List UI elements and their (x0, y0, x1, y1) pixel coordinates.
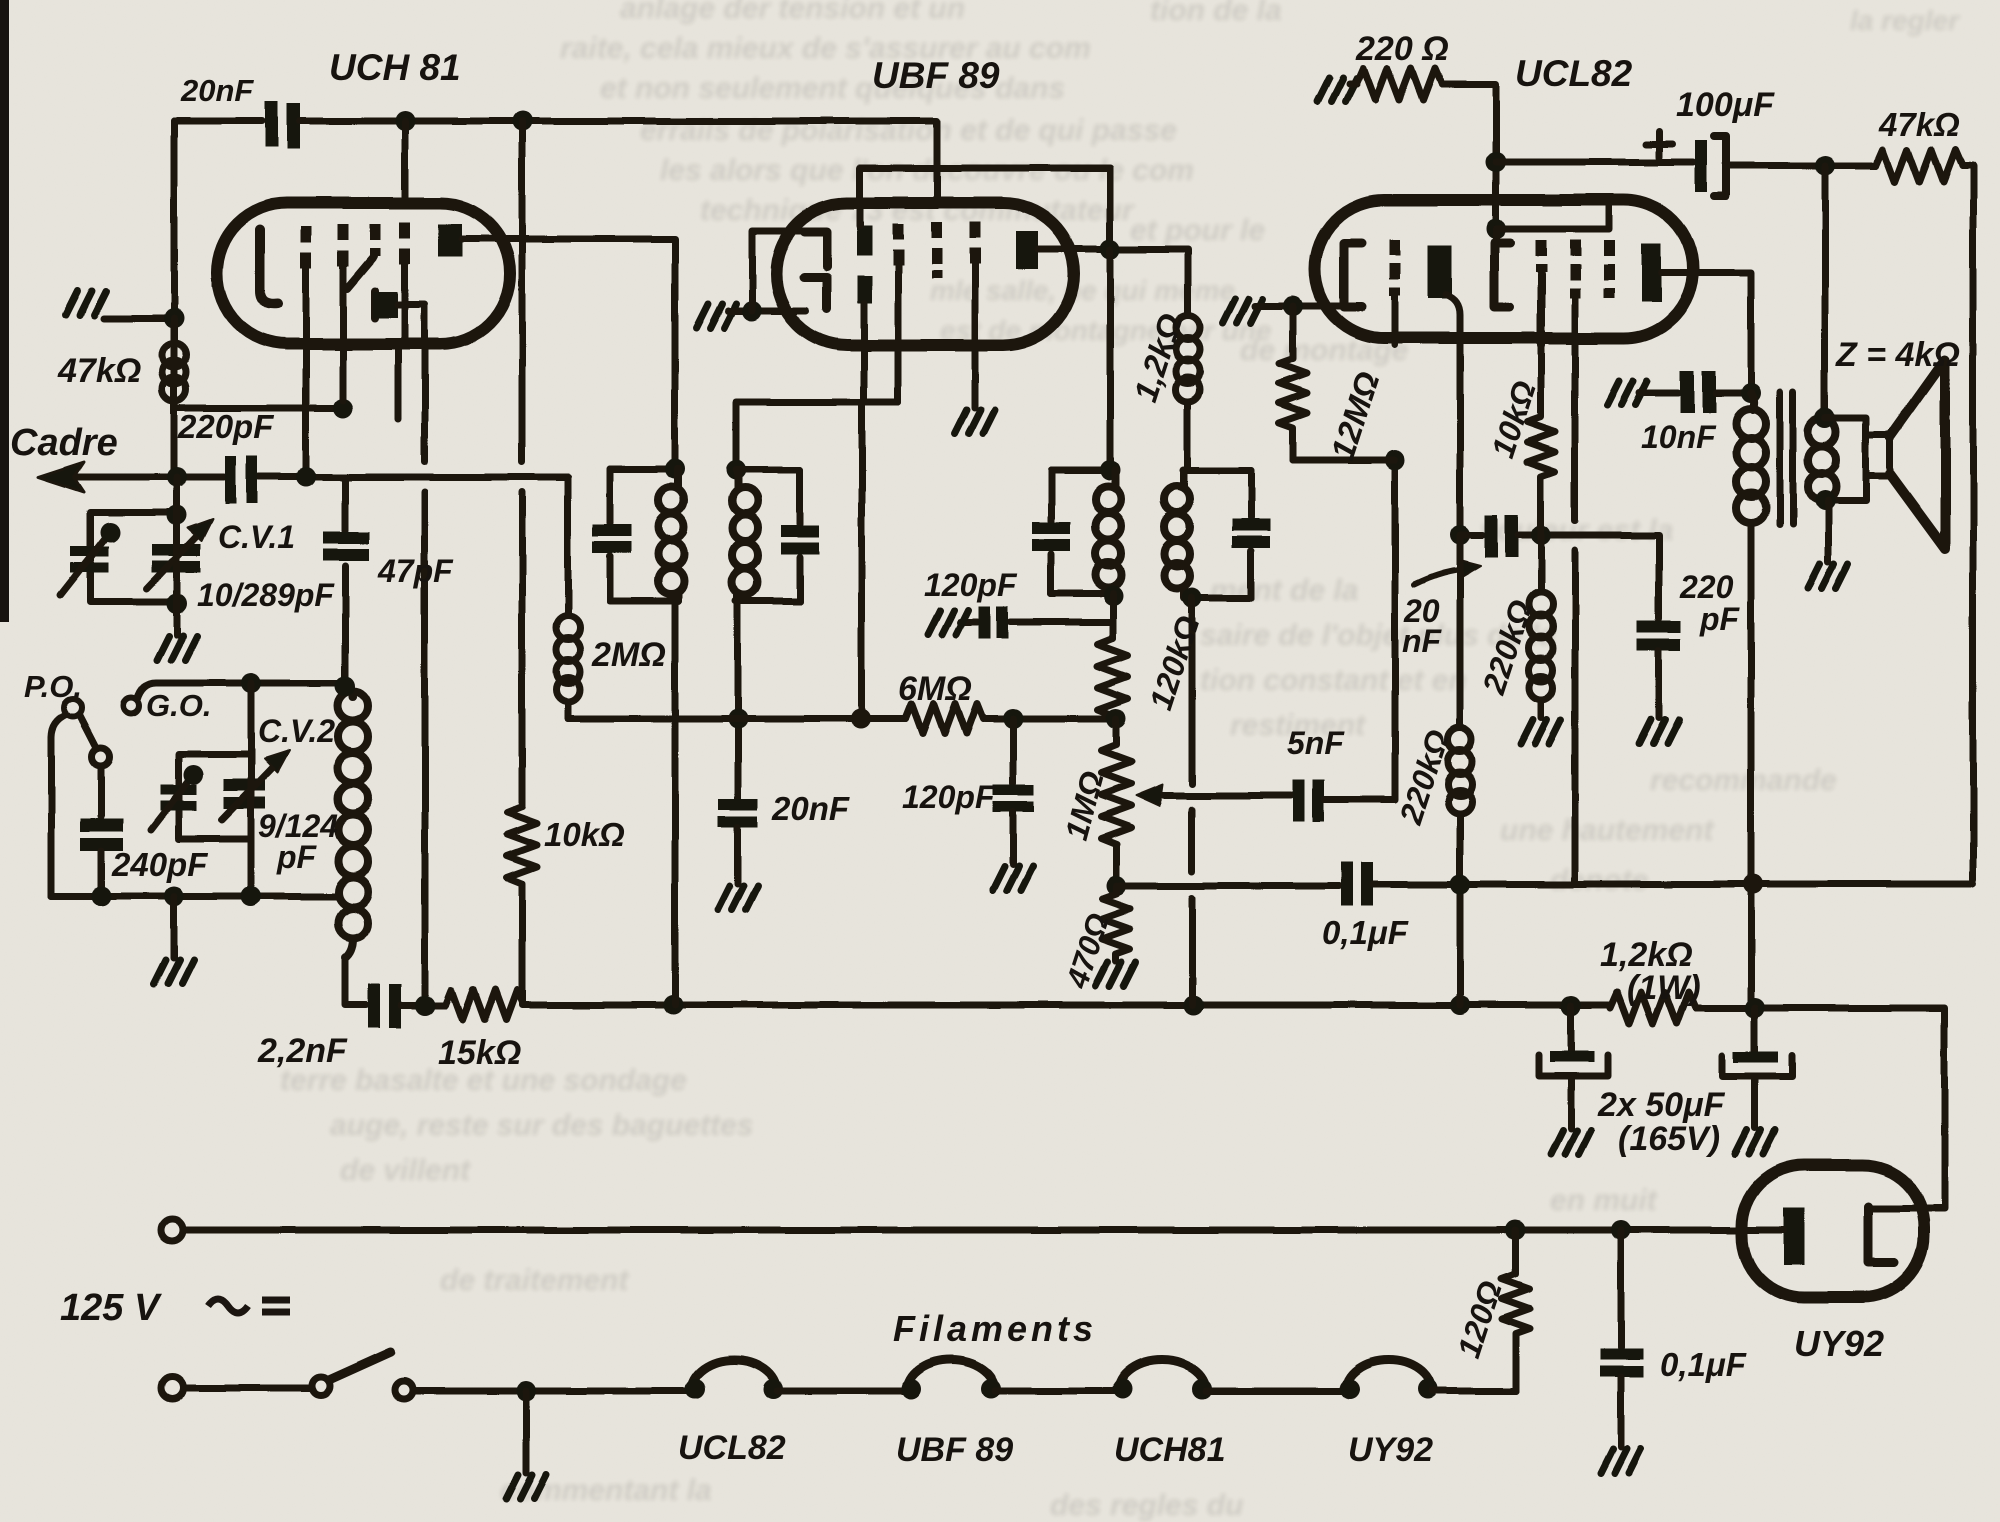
node AVC x1013 (1003, 709, 1023, 729)
resistor 470Ohm (1102, 886, 1130, 961)
wire P.O. down (51, 715, 66, 896)
wire to switch (183, 1385, 312, 1392)
CV2 trimmer line with dot (151, 777, 192, 830)
svg-text:UBF 89: UBF 89 (896, 1431, 1013, 1469)
CV2 trimmer plates (160, 785, 197, 811)
capacitor IF2 secondary (1232, 519, 1270, 548)
page edge dark strip left (0, 0, 9, 622)
svg-text:10kΩ: 10kΩ (544, 816, 625, 853)
wire filament link 3 (1206, 1388, 1346, 1395)
node OT bottom feedback (1743, 874, 1763, 894)
capacitor IF2 primary (1032, 522, 1070, 551)
ground below 20nF (718, 886, 758, 910)
node filament ground (516, 1381, 536, 1401)
svg-text:2x 50μF: 2x 50μF (1597, 1086, 1726, 1124)
wire 120R bottom to filament line (1513, 1374, 1520, 1391)
wire heater line 125V (183, 1227, 1783, 1234)
wire UBF89 screen loop (860, 168, 1110, 249)
node top bus A (395, 111, 415, 131)
svg-text:20nF: 20nF (180, 73, 254, 108)
UBF89 anode (square) (1016, 231, 1038, 269)
wire switch to filament chain (413, 1388, 691, 1395)
node AVC right end (1106, 709, 1126, 729)
node 12M top (1283, 296, 1303, 316)
IF2 primary bottom edge (1051, 591, 1115, 598)
svg-text:tion constant et en: tion constant et en (1200, 664, 1467, 697)
C.V.1 trimmer box (90, 512, 176, 602)
wire feedback line right (1373, 881, 1973, 888)
capacitor 220pF (tone) (1637, 621, 1681, 651)
ground left of UCL82 (1223, 299, 1263, 323)
wire secondary to ground (1825, 501, 1832, 562)
svg-text:ment de la: ment de la (1210, 574, 1358, 607)
wire pivot to 240pF (98, 766, 105, 817)
inductor OT secondary (1808, 418, 1836, 501)
IF2 primary top edge (1051, 467, 1115, 474)
switch lever (329, 1352, 391, 1380)
wire UCH81 heptode anode to IF1 (462, 239, 675, 465)
wire filament link 1 (777, 1388, 907, 1395)
node coil top (335, 676, 355, 696)
inductor oscillator coil (338, 683, 368, 958)
wire pentode anode out (1661, 273, 1751, 393)
terminal G.O. (123, 698, 139, 714)
UCL82 triode grid (1390, 240, 1401, 296)
inductor IF1 primary coil (658, 469, 684, 601)
svg-text:auge, reste sur des baguettes: auge, reste sur des baguettes (330, 1109, 754, 1142)
wire left rail (171, 121, 178, 477)
node GO line / CV2 (241, 673, 261, 693)
UCH81 cathode (260, 230, 278, 304)
node heater 120R (1506, 1220, 1526, 1240)
ground left of 10nF (1607, 381, 1647, 405)
UBF89 grid g2 (from top bus) (932, 222, 943, 278)
node rail-ground (164, 308, 184, 328)
node rail x1193 (1183, 995, 1203, 1015)
resistor 47kOhm (grid leak, coil style) (162, 318, 186, 477)
ground left of UBF89 (696, 304, 736, 328)
ground below 220pF (1639, 720, 1679, 744)
IF2 secondary cap branch (1248, 471, 1255, 598)
wire rail 2.2nF to 15k (401, 1002, 445, 1009)
wire pentode grid down (1572, 296, 1579, 884)
wire detector output down to rail (1189, 598, 1196, 1005)
UBF89 cathode bars (857, 226, 872, 256)
UCL82 triode cathode bracket (1344, 243, 1362, 307)
node triode load feedback (1450, 874, 1470, 894)
svg-text:100μF: 100μF (1676, 86, 1775, 124)
filament UCL82 (691, 1360, 777, 1391)
capacitor IF1 primary (593, 524, 631, 553)
node CV1 bottom (167, 594, 187, 614)
wire B+ line to 100uF (1496, 159, 1693, 166)
ground below 120pF (993, 866, 1033, 890)
svg-text:tion de la: tion de la (1150, 0, 1282, 27)
switch band lever (80, 716, 97, 749)
node 2x50 right (1745, 998, 1765, 1018)
svg-text:UCL82: UCL82 (678, 1429, 786, 1467)
svg-text:Filaments: Filaments (893, 1308, 1097, 1349)
svg-text:nF: nF (1402, 623, 1443, 659)
node tank ground stem (164, 886, 184, 906)
svg-text:des regles du: des regles du (1050, 1489, 1243, 1522)
svg-text:5nF: 5nF (1287, 725, 1345, 761)
capacitor C.V.1 main plates (152, 544, 201, 573)
arrow to 20nF (1414, 570, 1467, 585)
tube UBF89 envelope (776, 203, 1074, 345)
speaker cone (1890, 360, 1945, 549)
resistor 220Ohm (1356, 68, 1442, 100)
resistor 1,2kOhm (coil style) (1176, 316, 1200, 471)
svg-text:UCH81: UCH81 (1114, 1431, 1225, 1469)
svg-text:recommande: recommande (1650, 764, 1837, 797)
capacitor 120pF (series) (978, 606, 1008, 639)
wire 220R to B+ node (1442, 84, 1496, 229)
wire secondary top to driver (1825, 418, 1866, 437)
ground left of 120pF (928, 610, 968, 634)
ground below 220k (1521, 720, 1561, 744)
wire 100uF to 47k (1726, 163, 1876, 170)
trimmer cap plates (70, 546, 108, 572)
svg-text:une hautement: une hautement (1500, 814, 1715, 847)
wire UBF89 anode to 1.2k (1038, 249, 1188, 316)
resistor 220kOhm (screen, coil style) (1529, 535, 1553, 718)
svg-text:C.V.2: C.V.2 (258, 713, 335, 749)
C.V.1 arrow (147, 528, 205, 589)
node IF2 primary top (1100, 460, 1120, 480)
tube UCH81 envelope (217, 203, 510, 344)
svg-text:raite, cela mieux de s'assurer: raite, cela mieux de s'assurer au com (560, 32, 1091, 65)
IF2 secondary top edge (1184, 468, 1251, 475)
node IF1 primary top (665, 459, 685, 479)
IF1 primary top edge (610, 466, 678, 473)
node IF2 primary bottom (1103, 586, 1123, 606)
svg-text:125 V: 125 V (60, 1287, 162, 1329)
node heater 0.1uF (1611, 1220, 1631, 1240)
svg-text:Z = 4kΩ: Z = 4kΩ (1835, 336, 1960, 374)
node AVC x861 (851, 709, 871, 729)
svg-text:220pF: 220pF (177, 408, 274, 445)
svg-text:(1W): (1W) (1627, 969, 1701, 1007)
node rail x673 (663, 995, 683, 1015)
svg-text:10/289pF: 10/289pF (197, 577, 335, 613)
node triode grid junction (1385, 450, 1405, 470)
svg-text:2MΩ: 2MΩ (591, 636, 666, 674)
svg-text:pF: pF (1699, 601, 1741, 637)
inductor OT primary (1736, 393, 1766, 523)
wire CV1 to ground (174, 477, 181, 635)
svg-text:et pour le: et pour le (1130, 214, 1265, 247)
wire G.O. to coil top (137, 683, 340, 700)
node grid2 pin (333, 398, 353, 418)
terminal 125V top (161, 1219, 183, 1241)
speaker driver box (1866, 435, 1890, 476)
node rail x1460 (1450, 995, 1470, 1015)
node 20nF left (1450, 525, 1470, 545)
UCH81 grid g3 with diagonal (370, 224, 381, 256)
UBF89 diode loop wire (752, 231, 815, 311)
UY92 cathode bracket (1868, 1206, 1895, 1262)
svg-text:UBF 89: UBF 89 (872, 55, 1000, 96)
svg-text:C.V.1: C.V.1 (218, 519, 295, 555)
ground below tank (154, 960, 194, 984)
IF1 secondary riser (736, 402, 898, 470)
svg-text:UY92: UY92 (1348, 1431, 1433, 1469)
resistor 12MOhm (1279, 306, 1307, 460)
resistor 6MOhm (905, 704, 983, 734)
wire top bus 20nF to UBF89 grid corner (300, 121, 937, 205)
UBF89 diode plate top (804, 232, 827, 267)
tube UCL82 envelope (1315, 200, 1693, 338)
resistor 2MOhm (coil style) (556, 477, 580, 719)
svg-text:220 Ω: 220 Ω (1355, 30, 1449, 68)
capacitor 2x50uF left (1568, 1006, 1575, 1051)
C.V.2 arrow (222, 760, 280, 820)
terminal P.O. (64, 699, 82, 717)
resistor 10kOhm (x522) (507, 806, 537, 1005)
node UBF89 diode return (742, 301, 762, 321)
capacitor 2x50uF right (1752, 1008, 1759, 1051)
node CV2 bottom (241, 886, 261, 906)
node secondary bottom (1815, 491, 1835, 511)
IF1 secondary bottom edge (736, 598, 800, 605)
capacitor 5nF (series) (1293, 780, 1325, 822)
node IF1 secondary top (726, 460, 746, 480)
svg-text:120pF: 120pF (924, 567, 1018, 603)
wire IF1 primary bottom to rail (672, 601, 679, 1005)
svg-text:G.O.: G.O. (146, 688, 211, 723)
wire filament link 2 (995, 1388, 1118, 1395)
ground below UBF89 (955, 410, 995, 434)
node OT secondary top (1815, 408, 1835, 428)
wire speaker feed from B+ (1822, 166, 1829, 418)
svg-text:20nF: 20nF (771, 790, 850, 827)
IF2 secondary bottom edge (1184, 595, 1251, 602)
resistor 1,2kOhm 1W (series in B+ rail) (1610, 992, 1696, 1024)
IF2 primary cap branch (1048, 470, 1055, 594)
wire screen dot to bracket (1493, 229, 1500, 243)
ground below speaker (1808, 564, 1848, 588)
resistor 15kOhm (445, 990, 523, 1020)
UCH81 grid g1 (pin to Cadre line) (301, 226, 312, 268)
node OT top (1741, 383, 1761, 403)
UCH81 grid g4 (fed from top bus) (402, 121, 409, 203)
node 2x50 left (1561, 996, 1581, 1016)
capacitor 120pF (to ground) (993, 784, 1034, 812)
wire 120pF AGC line (960, 619, 1113, 626)
wire IF2 primary bottom to 120k (1110, 594, 1117, 638)
UCL82 pentode anode bar (1641, 244, 1661, 302)
IF1 primary cap branch (607, 469, 614, 601)
wire 47k right corner down (1962, 166, 1973, 880)
wire coil bottom to rail corner (345, 958, 366, 1005)
UBF89 grid g3 (to ground) (970, 222, 981, 264)
IF1 primary bottom edge (610, 598, 678, 605)
svg-text:15kΩ: 15kΩ (438, 1034, 521, 1072)
UBF89 grid g1 (893, 224, 904, 266)
svg-text:UCH 81: UCH 81 (329, 47, 461, 88)
UY92 anode bar (1783, 1208, 1804, 1265)
node output feed (1815, 156, 1835, 176)
wire 12M bottom to grid node (1293, 457, 1395, 464)
capacitor 0,1uF (series, feedback) (1341, 862, 1373, 906)
svg-text:de traitement: de traitement (440, 1264, 630, 1297)
node top bus B (512, 111, 532, 131)
node 240pF bottom (91, 886, 111, 906)
Cadre arrowhead (38, 462, 84, 492)
wire rail right to UY92 (1696, 1008, 1945, 1208)
resistor 10kOhm (cathode) (1527, 345, 1555, 535)
svg-text:en muit: en muit (1550, 1184, 1659, 1217)
wire 5nF to triode grid riser (1325, 468, 1395, 800)
terminal 125V bottom (161, 1377, 183, 1399)
symbol AC/DC (208, 1299, 290, 1313)
wire Cadre line (55, 474, 568, 481)
capacitor 20nF (series, top bus) (265, 101, 300, 149)
svg-text:0,1μF: 0,1μF (1660, 1346, 1747, 1383)
ground below 470 (1096, 962, 1136, 986)
wire 47k bottom to grid2 pin (174, 405, 343, 412)
capacitor 20nF (triode anode to pentode) (1460, 532, 1483, 539)
node AVC tee (728, 709, 748, 729)
capacitor 47pF (342, 477, 349, 688)
svg-text:anlage der tension et un: anlage der tension et un (620, 0, 965, 25)
UCL82 pentode g (to 10k) (1536, 240, 1547, 272)
node 20nF right (1531, 525, 1551, 545)
svg-text:P.O.: P.O. (24, 669, 82, 704)
UCH81 triode anode (square) (373, 292, 398, 318)
UCL82 pentode control grid (1570, 240, 1581, 298)
svg-text:Cadre: Cadre (10, 422, 118, 464)
C.V.2 trimmer box (179, 754, 251, 839)
ground below CV1 (157, 636, 197, 660)
UCL82 triode anode bar (1428, 245, 1452, 299)
IF1 secondary cap branch (797, 470, 804, 601)
capacitor 240pF (80, 819, 123, 851)
node Cadre-g1 (296, 467, 316, 487)
svg-text:(165V): (165V) (1618, 1120, 1720, 1158)
capacitor 100uF plus sign (1646, 131, 1672, 157)
svg-text:47kΩ: 47kΩ (1878, 106, 1960, 143)
wiper arrow 1M (1152, 793, 1200, 800)
wire OT primary bottom down (1748, 523, 1755, 1005)
wire bottom tank bus (51, 893, 337, 900)
capacitor 220pF (series in Cadre line) (225, 456, 257, 504)
resistor 120Ohm (1502, 1230, 1530, 1374)
svg-text:la regler: la regler (1850, 5, 1961, 36)
wire rail 15k to right (523, 1002, 1610, 1009)
wire feedback line left (1118, 883, 1339, 890)
wire secondary bottom (1822, 474, 1866, 501)
capacitor 100uF (1695, 140, 1707, 192)
ground left of 220R (1317, 78, 1357, 102)
svg-text:47pF: 47pF (377, 553, 454, 589)
wire filament link 4 (1432, 1388, 1516, 1395)
node screen grid dot (1486, 219, 1506, 239)
resistor 47kOhm (top right) (1876, 150, 1962, 182)
wire UCH81 triode anode down (398, 305, 425, 1004)
svg-text:120pF: 120pF (902, 779, 996, 815)
capacitor 20nF (AGC bypass) (718, 799, 758, 827)
wire x522 HT feed (519, 121, 526, 806)
capacitor 2,2nF (series in rail) (368, 984, 401, 1028)
ground left of 47k (104, 315, 174, 322)
trimmer adjust line with dot (60, 534, 108, 595)
UCH81 grid g2 (pin to 47k wire) (338, 224, 349, 266)
wire IF1 secondary bottom to AVC line (735, 601, 742, 799)
svg-text:pF: pF (276, 839, 318, 875)
capacitor 0,1uF (heater bypass) (1618, 1230, 1625, 1348)
capacitor 10nF (1680, 371, 1716, 413)
UCL82 pentode cathode bracket (1494, 243, 1510, 307)
svg-text:2,2nF: 2,2nF (257, 1032, 348, 1070)
wire AVC line (568, 716, 1116, 723)
node IF2 secondary bottom (1182, 588, 1202, 608)
wire tank ground stem (171, 896, 178, 958)
inductor IF2 secondary coil (1164, 471, 1190, 598)
wire filament ground stem (523, 1391, 530, 1473)
wire top bus left of 20nF (174, 118, 262, 125)
wire 120pF stem (1010, 719, 1017, 783)
node anode-screen (1100, 239, 1120, 259)
node rail x425 (415, 995, 435, 1015)
UCL82 pentode screen grid (1604, 240, 1615, 298)
svg-text:10nF: 10nF (1641, 419, 1717, 455)
wire screen dot right (1496, 206, 1609, 229)
UBF89 cathode pin down (864, 303, 898, 402)
wire CV2 riser (248, 683, 255, 754)
inductor IF1 secondary coil (732, 470, 758, 601)
node B+ screen (1486, 152, 1506, 172)
svg-text:de villent: de villent (340, 1154, 472, 1187)
svg-text:240pF: 240pF (111, 846, 208, 883)
wire UBF89 cathode to AVC line (859, 402, 866, 719)
capacitor C.V.2 main plates (224, 779, 265, 809)
IF1 secondary top edge (736, 467, 800, 474)
potentiometer 1MOhm (1101, 719, 1131, 886)
svg-text:UY92: UY92 (1794, 1323, 1884, 1364)
switch contact (395, 1381, 413, 1399)
svg-text:47kΩ: 47kΩ (57, 352, 141, 390)
switch pivot (312, 1377, 330, 1395)
wire CV2 main down (248, 754, 255, 896)
wire IF2 primary riser (1107, 249, 1114, 470)
node Cadre-rail (167, 467, 187, 487)
OT core bars (1780, 392, 1793, 525)
svg-text:UCL82: UCL82 (1515, 53, 1633, 94)
resistor 120kOhm (1098, 638, 1128, 719)
node pot bottom (1106, 876, 1126, 896)
wire wiper to 5nF (1200, 793, 1291, 800)
resistor 220kOhm (triode load, coil style) (1448, 535, 1472, 1005)
UBF89 diode plate bottom (804, 278, 827, 309)
filament UCH81 (1118, 1360, 1206, 1391)
svg-text:6MΩ: 6MΩ (898, 670, 972, 708)
tube UY92 envelope (1742, 1165, 1924, 1297)
inductor IF2 primary coil (1095, 470, 1121, 594)
filament UY92 (1346, 1360, 1432, 1391)
UCH81 anode H (square) (438, 224, 462, 257)
svg-text:0,1μF: 0,1μF (1322, 914, 1409, 951)
node CV1 top (167, 505, 187, 525)
svg-text:220: 220 (1679, 569, 1734, 605)
filament UBF89 (907, 1360, 995, 1391)
capacitor IF1 secondary (781, 525, 819, 554)
wire triode anode down (1446, 295, 1460, 535)
